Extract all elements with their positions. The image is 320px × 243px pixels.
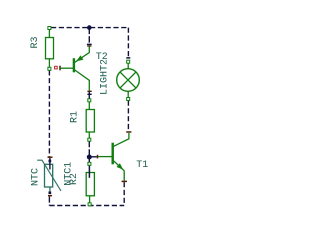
pin end cap T1 emitter (122, 180, 128, 182)
pin node square R2 top (88, 162, 91, 165)
svg-text:T1: T1 (136, 160, 148, 171)
lamp LIGHT2 (117, 63, 140, 97)
pin line NTC top (49, 158, 51, 170)
pin end cap T1 collector (126, 131, 131, 133)
svg-text:NTC1: NTC1 (63, 162, 74, 186)
pin end cap T1 base (97, 155, 99, 159)
pin end cap T2 collector (87, 90, 91, 92)
wire lamp bottom to T1 collector (127, 101, 129, 132)
pin end cap T2 base (59, 66, 61, 71)
pin end cap T2 emitter (87, 43, 92, 45)
pin end cap lamp top (126, 57, 130, 59)
pin node square NTC bottom (49, 191, 52, 194)
pin node square NTC top (49, 160, 52, 163)
thermistor NTC1 (37, 160, 61, 191)
svg-text:LIGHT2: LIGHT2 (100, 59, 111, 95)
pin node square lamp bottom (127, 98, 130, 101)
wire junction to T1 base (89, 156, 97, 158)
arrow T2 emitter (PNP) (76, 55, 83, 61)
pin end cap NTC bottom (48, 195, 52, 197)
wire R1 bottom to junction (88, 141, 90, 157)
svg-text:R1: R1 (70, 111, 81, 123)
wire T1 emitter down (123, 182, 125, 205)
resistor R2 (86, 173, 94, 203)
arrow T1 emitter (NPN) (117, 163, 124, 170)
wire T2 emitter drop (88, 28, 90, 44)
pin node square R2 bottom on wire (88, 203, 91, 206)
wire top horizontal net VCC (51, 27, 128, 29)
junction dot top (87, 25, 92, 30)
resistor R3 (46, 30, 54, 68)
resistor R1 (86, 102, 94, 138)
svg-text:NTC: NTC (31, 168, 42, 186)
wire bottom horizontal net GND (49, 205, 124, 207)
wire left vertical column (48, 70, 50, 157)
junction dot middle (87, 155, 92, 160)
pin node square lamp top (127, 60, 130, 63)
wire junction to R2 top (88, 157, 90, 162)
pin node square R1 bottom (88, 138, 91, 141)
pin node square R3 bottom (48, 67, 51, 70)
unconnected marker T2 base (55, 66, 58, 69)
wire right vertical to lamp (127, 28, 129, 58)
wire NTC bottom drop (48, 197, 50, 206)
transistor T1 (98, 133, 129, 181)
pin node square R3 top (48, 27, 51, 30)
pin end cap NTC top (48, 156, 53, 158)
wire T2 collector to R1 (88, 92, 90, 99)
svg-text:R3: R3 (30, 36, 41, 48)
pin node square R1 top (88, 99, 91, 102)
transistor T2 (61, 46, 90, 90)
pin line R2 top (88, 165, 90, 178)
